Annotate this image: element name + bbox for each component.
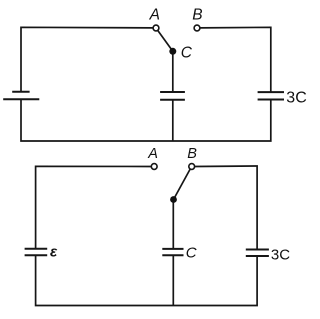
node C junction dot (top circuit switch pole): [169, 48, 176, 55]
battery emf source value epsilon (bottom circuit): [25, 249, 48, 255]
wire bottom rail (top circuit): [21, 99, 271, 141]
junction dot switch pole (bottom circuit): [170, 196, 177, 203]
svg-text:ε: ε: [50, 244, 58, 261]
wire top-right horizontal (top circuit): [200, 27, 271, 92]
capacitor C2 value 3C (top circuit right): [258, 92, 284, 99]
node B terminal circle (top circuit): [194, 25, 200, 31]
capacitor C3 value C (bottom circuit middle): [162, 249, 183, 255]
svg-text:3C: 3C: [271, 246, 290, 263]
wire middle branch lower (bottom circuit): [172, 255, 174, 305]
wire top-left horizontal (bottom circuit): [36, 166, 152, 249]
svg-text:3C: 3C: [286, 89, 306, 106]
wire middle branch upper (top circuit): [172, 51, 174, 92]
switch S2 arm (bottom circuit, thrown to B): [174, 169, 191, 200]
svg-text:A: A: [149, 7, 160, 24]
svg-text:B: B: [187, 146, 197, 162]
node A terminal circle (bottom circuit): [151, 164, 157, 170]
wire top-left horizontal (top circuit): [21, 27, 153, 91]
wire middle branch lower (top circuit): [172, 100, 174, 141]
wire top-right horizontal (bottom circuit): [195, 166, 258, 250]
wire middle branch upper (bottom circuit): [172, 200, 174, 249]
capacitor C4 value 3C (bottom circuit right): [246, 250, 269, 257]
capacitor C1 value C (top circuit middle): [160, 92, 185, 100]
node B terminal circle (bottom circuit): [189, 164, 195, 170]
node A terminal circle (top circuit): [153, 25, 159, 31]
svg-text:A: A: [147, 146, 158, 162]
svg-text:C: C: [186, 244, 197, 261]
wire bottom rail (bottom circuit): [36, 255, 258, 305]
svg-text:B: B: [192, 7, 202, 24]
battery V1 (top circuit EMF source): [3, 92, 39, 100]
svg-text:C: C: [181, 45, 193, 62]
switch S1 arm (top circuit, thrown to A): [158, 30, 173, 51]
